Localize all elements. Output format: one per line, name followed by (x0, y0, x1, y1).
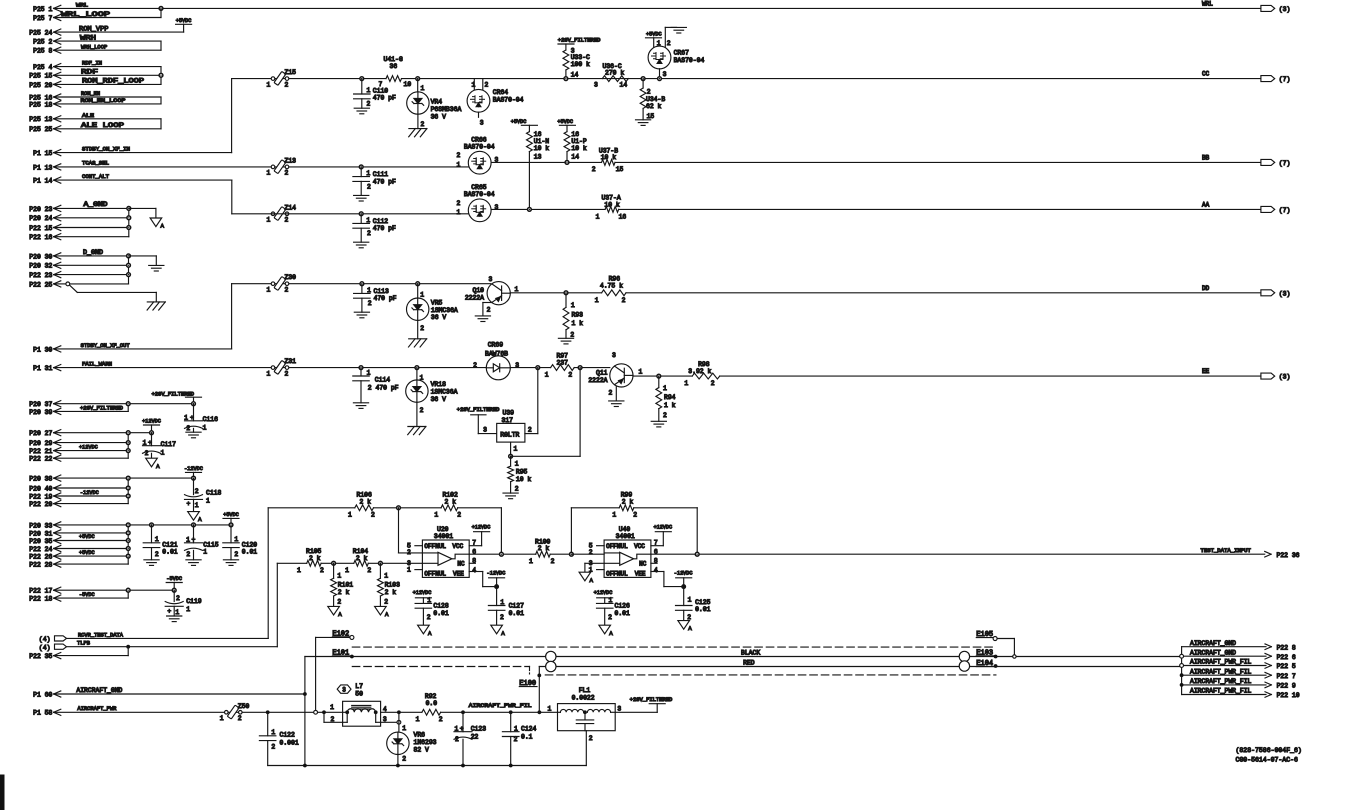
svg-text:R103: R103 (385, 581, 401, 588)
svg-text:P25 13: P25 13 (29, 116, 52, 123)
node R99 left junction (570, 552, 574, 556)
svg-text:P22 15: P22 15 (29, 225, 52, 232)
wire +28V group (54, 403, 194, 405)
output row AIRCRAFT_PWR_FIL to P22 10 (1182, 694, 1266, 696)
svg-text:2: 2 (337, 599, 341, 606)
svg-text:P22 36: P22 36 (1277, 552, 1300, 559)
svg-text:36 V: 36 V (431, 314, 447, 321)
node TLPB junction (126, 645, 130, 649)
svg-text:VCC: VCC (634, 543, 645, 550)
svg-text:1: 1 (271, 729, 275, 736)
svg-text:2: 2 (421, 121, 425, 128)
svg-text:TEST_DATA_INPUT: TEST_DATA_INPUT (1201, 548, 1251, 554)
svg-text:+: + (167, 608, 171, 615)
svg-text:R94: R94 (664, 394, 676, 401)
wire FL1 pin2 to rail (585, 731, 587, 766)
capacitor C120 0.01 (230, 525, 232, 543)
svg-text:2: 2 (647, 88, 651, 95)
svg-text:P1 14: P1 14 (33, 178, 52, 185)
svg-text:CR69: CR69 (488, 341, 504, 348)
node C121 junction (150, 523, 154, 527)
output row AIRCRAFT_PWR_FIL to P22 9 (1182, 684, 1266, 686)
ground earth (C121) (144, 559, 159, 561)
svg-text:0.01: 0.01 (695, 606, 711, 613)
svg-text:0.01: 0.01 (242, 549, 258, 556)
svg-text:1: 1 (416, 716, 420, 723)
svg-text:2: 2 (238, 715, 242, 722)
svg-text:2: 2 (367, 567, 371, 574)
ground earth (C113) (354, 311, 369, 313)
svg-text:1: 1 (420, 291, 424, 298)
svg-text:1: 1 (367, 369, 371, 376)
svg-text:2: 2 (592, 166, 596, 173)
svg-text:P25 20: P25 20 (29, 82, 52, 89)
svg-text:ROM_VPP: ROM_VPP (79, 25, 109, 32)
svg-text:470 pF: 470 pF (376, 385, 399, 392)
svg-text:A: A (688, 625, 692, 632)
L7 coil (347, 709, 375, 713)
svg-text:P20 32: P20 32 (29, 263, 52, 270)
wire RCVR_TEST_DATA (67, 637, 269, 639)
wire ROM_EN loop (54, 96, 161, 98)
svg-text:A: A (428, 630, 432, 637)
svg-text:3: 3 (663, 71, 667, 78)
svg-text:1: 1 (514, 725, 518, 732)
capacitor C113 (361, 284, 363, 294)
svg-text:Z31: Z31 (285, 358, 297, 365)
svg-text:1: 1 (407, 566, 411, 573)
svg-text:+5VDC: +5VDC (176, 18, 192, 24)
node C111 junction (359, 165, 363, 169)
svg-text:+12VDC: +12VDC (472, 524, 491, 530)
node C110 junction (360, 77, 364, 81)
svg-text:C120: C120 (242, 542, 258, 549)
wire BB row right (492, 161, 602, 163)
jumper Z15 (271, 77, 275, 81)
svg-text:TCAS_SEL: TCAS_SEL (82, 161, 109, 167)
svg-text:36 V: 36 V (431, 113, 447, 120)
svg-text:U1-P: U1-P (571, 138, 587, 145)
svg-text:2: 2 (570, 331, 574, 338)
svg-text:+5VDC: +5VDC (223, 512, 239, 518)
svg-text:14: 14 (571, 154, 579, 161)
svg-text:STDBY_ON_XF_OUT: STDBY_ON_XF_OUT (81, 343, 130, 349)
svg-text:1: 1 (330, 704, 334, 711)
svg-text:1: 1 (529, 558, 533, 565)
svg-text:VR5: VR5 (431, 299, 443, 306)
svg-text:Q11: Q11 (596, 370, 608, 377)
svg-text:A: A (385, 611, 389, 618)
svg-text:P22 9: P22 9 (1277, 683, 1296, 690)
svg-text:OFFNUL: OFFNUL (606, 570, 628, 577)
ground analog A (C127) (491, 625, 503, 634)
svg-text:2: 2 (371, 512, 375, 519)
svg-text:C110: C110 (373, 88, 389, 95)
ground chassis (VR4) (409, 128, 427, 130)
FL1 coils (558, 711, 561, 713)
svg-text:2222A: 2222A (465, 294, 484, 301)
svg-text:RCVR_TEST_DATA: RCVR_TEST_DATA (78, 632, 124, 638)
svg-text:P22 21: P22 21 (29, 448, 52, 455)
svg-text:DD: DD (1202, 285, 1210, 292)
svg-text:P22 35: P22 35 (29, 653, 52, 660)
svg-text:2: 2 (420, 325, 424, 332)
svg-text:1: 1 (348, 512, 352, 519)
wire U20 pin4 to -12VDC (469, 571, 483, 573)
ground earth (R93) (558, 337, 573, 339)
svg-text:1: 1 (515, 286, 519, 293)
wire R99 feedback loop (570, 508, 572, 554)
wire TCAS_SEL to CR66 (54, 166, 470, 168)
svg-text:470 pF: 470 pF (373, 178, 396, 185)
svg-text:+5VDC: +5VDC (79, 534, 95, 540)
svg-text:U1-N: U1-N (534, 138, 550, 145)
svg-text:AIRCRAFT_GND: AIRCRAFT_GND (1190, 640, 1236, 647)
capacitor C117 polarized (151, 433, 153, 446)
capacitor C124 0.1 (510, 712, 512, 731)
inductor L7 50 (transformer) (337, 685, 351, 693)
svg-text:2: 2 (367, 183, 371, 190)
svg-text:7: 7 (379, 81, 383, 88)
svg-text:2: 2 (687, 614, 691, 621)
svg-text:+28V_FILTERED: +28V_FILTERED (457, 407, 500, 413)
jumper Z31 (271, 366, 275, 370)
svg-text:2: 2 (234, 551, 238, 558)
wire U40 pin3 to analog ground (585, 562, 604, 564)
wire EE row mid (510, 367, 550, 369)
svg-text:1: 1 (345, 567, 349, 574)
svg-text:R96: R96 (609, 275, 621, 282)
svg-text:P1 13: P1 13 (33, 164, 52, 171)
svg-text:1: 1 (267, 81, 271, 88)
svg-text:WRL: WRL (1202, 0, 1213, 7)
svg-text:2: 2 (285, 170, 289, 177)
svg-text:+: + (187, 501, 191, 508)
svg-text:P22 22: P22 22 (29, 456, 52, 463)
svg-text:R95: R95 (516, 469, 528, 476)
power +5VDC (ROM_VPP) (176, 23, 192, 25)
svg-text:3: 3 (495, 204, 499, 211)
wire TLPB (67, 646, 278, 648)
svg-text:2: 2 (589, 549, 593, 556)
svg-text:OFFNUL: OFFNUL (606, 543, 628, 550)
svg-text:1: 1 (434, 512, 438, 519)
svg-text:WRL_LOOP: WRL_LOOP (61, 11, 110, 18)
svg-text:0.01: 0.01 (433, 610, 449, 617)
wire AA row left (232, 213, 469, 215)
output row AIRCRAFT_PWR_FIL to P22 5 (1182, 665, 1266, 667)
svg-text:C112: C112 (373, 218, 389, 225)
svg-text:AIRCRAFT_GND: AIRCRAFT_GND (76, 687, 122, 694)
svg-text:1: 1 (663, 385, 667, 392)
node C125 junction (682, 585, 686, 589)
svg-text:1: 1 (595, 297, 599, 304)
svg-text:1 k: 1 k (664, 402, 676, 409)
svg-text:CG0-5614-07-AC-6: CG0-5614-07-AC-6 (1236, 757, 1299, 764)
svg-text:1: 1 (367, 287, 371, 294)
svg-text:2: 2 (473, 362, 477, 369)
svg-text:2: 2 (320, 567, 324, 574)
svg-text:2: 2 (514, 736, 518, 743)
node R97-R98 junction (578, 366, 582, 370)
svg-text:P20 38: P20 38 (29, 476, 52, 483)
svg-text:P1 30: P1 30 (33, 346, 52, 353)
svg-text:-5VDC: -5VDC (79, 592, 95, 598)
svg-text:RGLTR: RGLTR (500, 432, 519, 439)
wire WRH loop (54, 40, 161, 42)
wire U40 pin2 input (571, 553, 604, 555)
svg-text:470 pF: 470 pF (373, 95, 396, 102)
svg-text:Z14: Z14 (285, 204, 297, 211)
svg-text:2: 2 (515, 485, 519, 492)
wire STDBY_ON_XF_IN (54, 152, 232, 154)
wire E101 drop (304, 657, 306, 766)
wire U39 pin1 (510, 442, 512, 456)
svg-text:1 k: 1 k (572, 320, 584, 327)
svg-text:1N6293: 1N6293 (414, 739, 437, 746)
svg-text:100 k: 100 k (571, 61, 590, 68)
output row AIRCRAFT_PWR_FIL to P22 7 (1182, 674, 1266, 676)
svg-text:C119: C119 (186, 598, 202, 605)
capacitor C112 (360, 214, 362, 224)
svg-text:P1 15: P1 15 (33, 150, 52, 157)
svg-text:ALE LOOP: ALE LOOP (81, 122, 124, 129)
wire R102 to output (500, 508, 502, 554)
svg-text:P20 24: P20 24 (29, 215, 52, 222)
wire DD row left (232, 283, 491, 285)
node CR67 junction (658, 77, 662, 81)
svg-text:RDF_IN: RDF_IN (82, 61, 102, 67)
svg-text:4: 4 (472, 567, 476, 574)
svg-text:0.001: 0.001 (280, 739, 299, 746)
wire to earth ground (129, 255, 157, 257)
svg-text:P20 35: P20 35 (29, 538, 52, 545)
svg-text:P20 33: P20 33 (29, 522, 52, 529)
svg-text:2: 2 (176, 595, 180, 602)
ground analog A (U40 pin3) (579, 572, 591, 581)
svg-text:P22 10: P22 10 (1277, 692, 1300, 699)
ground earth (C120) (223, 559, 238, 561)
svg-text:NC: NC (639, 561, 647, 568)
node R102 output junction (500, 552, 504, 556)
svg-text:U39: U39 (503, 410, 515, 417)
jumper Z14 (271, 212, 275, 216)
svg-text:2 k: 2 k (356, 555, 368, 562)
wire U40 pin4 to -12VDC (651, 571, 664, 573)
svg-text:VEE: VEE (635, 570, 646, 577)
svg-text:P22 20: P22 20 (29, 501, 52, 508)
svg-text:BAS70-04: BAS70-04 (464, 144, 495, 151)
ground chassis (VR18) (408, 426, 426, 428)
node VR18 junction (415, 366, 419, 370)
wire RDF group loop (54, 66, 161, 68)
svg-text:36 V: 36 V (431, 396, 447, 403)
wire R95 junction to R97-R98 junction (511, 455, 580, 457)
svg-text:1: 1 (206, 498, 210, 505)
svg-text:P25 25: P25 25 (29, 126, 52, 133)
svg-text:-12VDC: -12VDC (184, 466, 203, 472)
svg-text:1: 1 (457, 209, 461, 216)
svg-text:+12VDC: +12VDC (413, 590, 432, 596)
svg-text:2: 2 (528, 427, 532, 434)
wire D_GND bus (54, 255, 129, 257)
wire C122 to bottom rail (267, 741, 269, 766)
diode CR64 BAS70-04 (473, 79, 475, 91)
svg-text:P25 4: P25 4 (33, 64, 52, 71)
svg-text:D_GND: D_GND (83, 249, 103, 256)
svg-text:C121: C121 (162, 542, 178, 549)
svg-text:10: 10 (404, 81, 412, 88)
svg-text:P22 25: P22 25 (29, 281, 52, 288)
wire L7 pin3 loop (375, 712, 377, 722)
wire EE row right (633, 375, 692, 377)
resistor U34-B 62 k (642, 79, 644, 88)
wire R106 feedback row (268, 507, 355, 509)
resistor R93 1 k (565, 293, 567, 308)
svg-text:CR65: CR65 (471, 184, 487, 191)
svg-text:AIRCRAFT_PWR_FIL: AIRCRAFT_PWR_FIL (1190, 659, 1252, 666)
wire -12V group (54, 477, 194, 479)
ground analog A (C128) (418, 625, 430, 634)
svg-text:2: 2 (155, 551, 159, 558)
svg-text:1: 1 (337, 573, 341, 580)
svg-text:(3): (3) (1279, 374, 1291, 381)
svg-text:14: 14 (571, 72, 579, 79)
jumper Z30 (271, 282, 275, 286)
node L7 pin4 junction (374, 710, 378, 714)
node R97 output junction (536, 366, 540, 370)
wire STDBY_ON_XF_OUT (54, 348, 232, 350)
capacitor C116 polarized (193, 404, 195, 421)
svg-text:AIRCRAFT_GND: AIRCRAFT_GND (1190, 649, 1236, 656)
svg-text:P20 40: P20 40 (29, 485, 52, 492)
node C116 junction (192, 402, 196, 406)
svg-text:+28V_FILTERED: +28V_FILTERED (558, 37, 601, 43)
svg-text:2: 2 (186, 425, 190, 432)
svg-text:2: 2 (608, 614, 612, 621)
shield dashed left segment (352, 666, 529, 668)
node R95 junction (509, 454, 513, 458)
svg-text:ROM_EN_LOOP: ROM_EN_LOOP (81, 97, 126, 104)
svg-text:2 k: 2 k (445, 498, 457, 505)
wire WRL_LOOP (54, 17, 161, 19)
svg-text:2 k: 2 k (360, 498, 372, 505)
svg-text:22: 22 (471, 733, 479, 740)
svg-text:0.1: 0.1 (521, 733, 533, 740)
svg-text:A: A (156, 463, 160, 470)
node R106-R102 junction (397, 506, 401, 510)
svg-text:2: 2 (485, 81, 489, 88)
wire +5V group (54, 524, 231, 526)
wire U40 pin7 to +12VDC (651, 545, 663, 547)
wire U39 pin3 (477, 415, 479, 434)
svg-text:2: 2 (457, 200, 461, 207)
svg-text:A: A (338, 611, 342, 618)
ground analog A (C118) (188, 512, 200, 521)
node C118 junction (192, 476, 196, 480)
svg-text:BAS70-04: BAS70-04 (674, 57, 705, 64)
svg-text:P20 31: P20 31 (29, 530, 52, 537)
wire CC row (232, 78, 386, 80)
svg-text:1: 1 (203, 549, 207, 556)
svg-text:1: 1 (639, 368, 643, 375)
bottom ground rail (268, 765, 587, 767)
svg-text:BAS70-04: BAS70-04 (493, 97, 524, 104)
svg-text:2: 2 (402, 756, 406, 763)
svg-text:1: 1 (267, 170, 271, 177)
svg-text:1: 1 (547, 706, 551, 713)
svg-text:EE: EE (1202, 368, 1210, 375)
wire L7 to R92 (381, 711, 422, 713)
svg-text:16: 16 (534, 131, 542, 138)
svg-text:P20 27: P20 27 (29, 430, 52, 437)
svg-text:8: 8 (654, 557, 658, 564)
svg-text:2: 2 (500, 614, 504, 621)
svg-text:+28V_FILTERED: +28V_FILTERED (630, 697, 673, 703)
zener VR5 1SMC36A (417, 284, 419, 298)
node E104 bus junction (1180, 664, 1184, 668)
svg-text:P25 24: P25 24 (29, 30, 52, 37)
svg-text:WRL: WRL (76, 2, 88, 8)
svg-text:2: 2 (271, 744, 275, 751)
svg-text:36: 36 (390, 63, 398, 70)
wire U20 output row (469, 553, 536, 555)
svg-text:10 k: 10 k (534, 145, 550, 152)
svg-text:0.01: 0.01 (162, 549, 178, 556)
svg-text:P22 16: P22 16 (29, 234, 52, 241)
svg-text:15: 15 (616, 166, 624, 173)
svg-text:2 k: 2 k (338, 589, 350, 596)
svg-text:2: 2 (195, 488, 199, 495)
svg-text:2: 2 (285, 81, 289, 88)
svg-text:2: 2 (368, 300, 372, 307)
svg-text:1: 1 (596, 213, 600, 220)
svg-text:1: 1 (684, 380, 688, 387)
wire ROM_VPP (54, 31, 184, 33)
node bus junction P22 7 (1180, 673, 1184, 677)
twisted pair symbol left (546, 651, 556, 661)
diode CR67 BAS70-04 (653, 38, 655, 48)
svg-text:P1 60: P1 60 (33, 691, 52, 698)
svg-text:AA: AA (1202, 201, 1210, 208)
ground earth (R95) (503, 492, 518, 494)
resistor U41-G 36 (386, 76, 402, 82)
svg-text:1: 1 (571, 302, 575, 309)
svg-text:10 k: 10 k (571, 145, 587, 152)
svg-text:(7): (7) (1279, 76, 1291, 83)
svg-text:3: 3 (617, 706, 621, 713)
svg-text:34001: 34001 (434, 533, 453, 540)
svg-text:AIRCRAFT_PWR_FIL: AIRCRAFT_PWR_FIL (1190, 688, 1252, 695)
svg-text:470 pF: 470 pF (374, 295, 397, 302)
svg-text:1: 1 (220, 715, 224, 722)
svg-text:0.01: 0.01 (615, 610, 631, 617)
svg-text:470 pF: 470 pF (373, 225, 396, 232)
node C124 junction (509, 710, 513, 714)
ground earth (C112) (354, 241, 369, 243)
svg-text:A: A (198, 516, 202, 523)
svg-text:(3): (3) (1279, 290, 1291, 297)
svg-text:WRH_LOOP: WRH_LOOP (81, 43, 107, 50)
svg-text:2 k: 2 k (538, 545, 550, 552)
svg-text:A: A (161, 223, 165, 230)
svg-text:BB: BB (1202, 154, 1210, 161)
svg-text:2: 2 (285, 370, 289, 377)
node VR5 junction (416, 282, 420, 286)
svg-text:WRH: WRH (80, 34, 96, 41)
svg-text:(7): (7) (1279, 207, 1291, 214)
svg-text:0.0022: 0.0022 (572, 695, 595, 702)
